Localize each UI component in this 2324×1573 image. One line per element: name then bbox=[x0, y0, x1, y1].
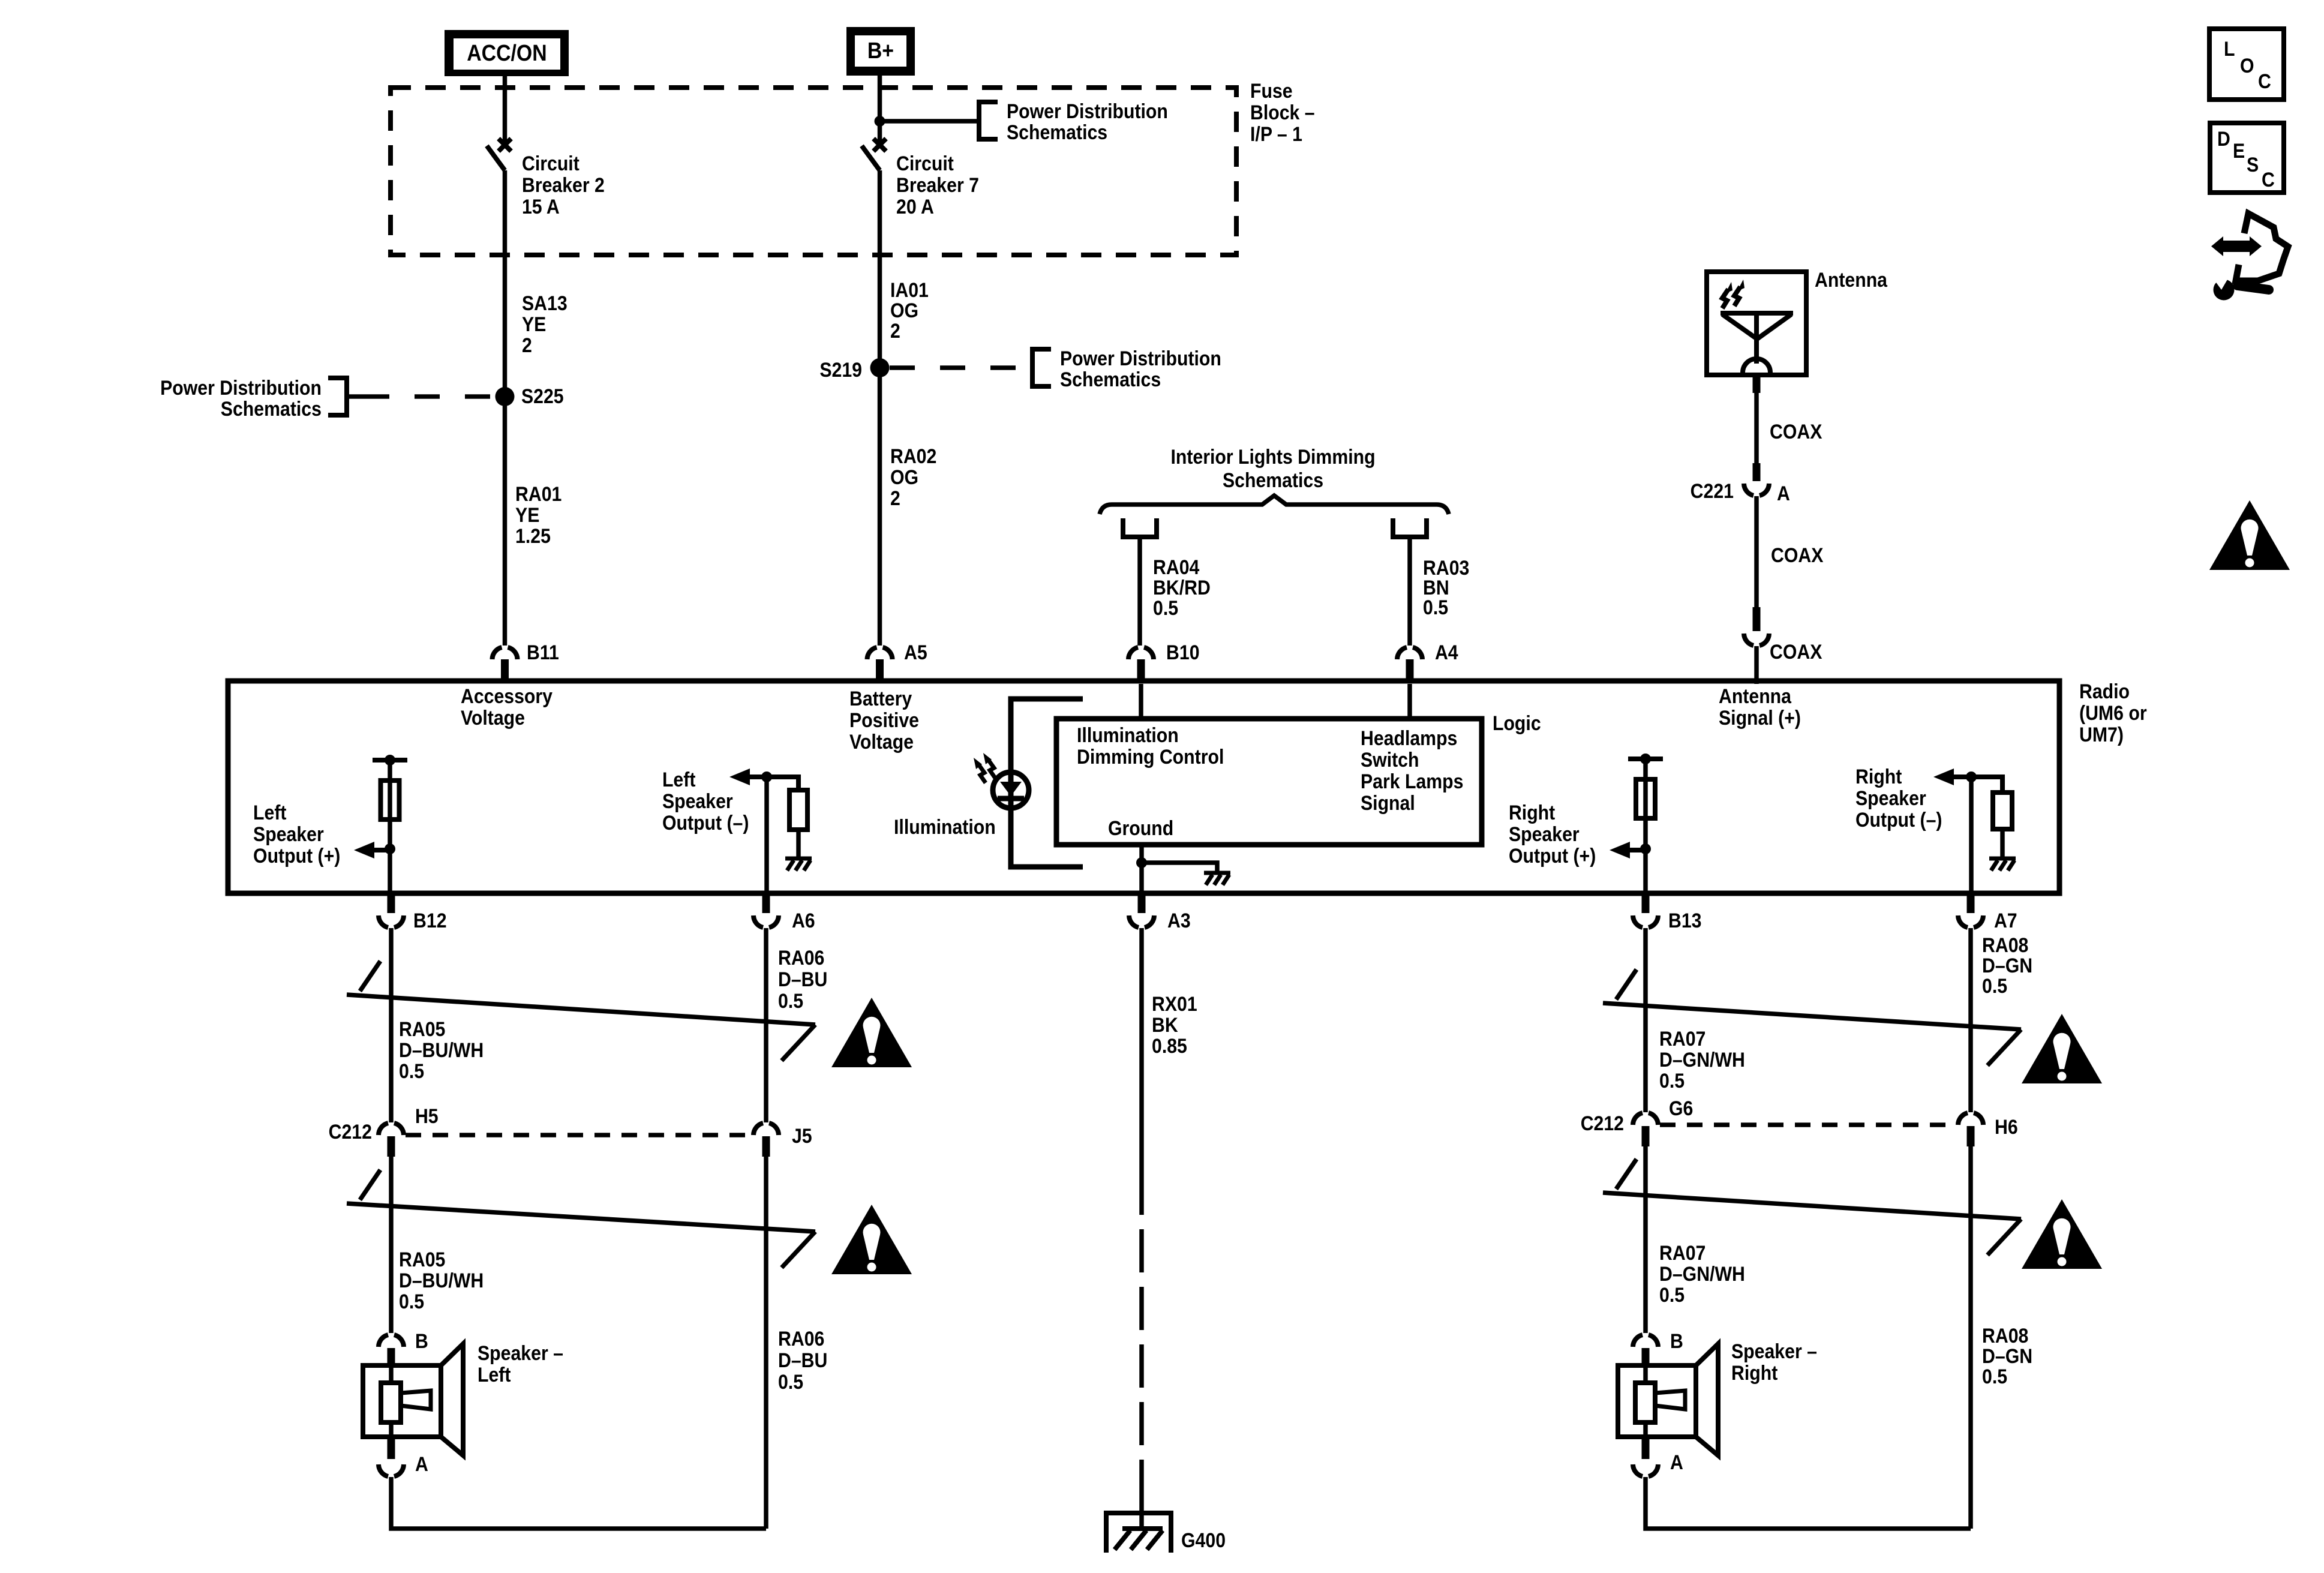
svg-text:D: D bbox=[2217, 127, 2230, 150]
radio pin A4 stub bbox=[1406, 659, 1414, 682]
speaker right driver bbox=[1635, 1383, 1655, 1422]
wire RX01 dashed segment bbox=[1139, 1172, 1144, 1500]
radio pin B11 socket bbox=[493, 647, 518, 659]
svg-text:Speaker: Speaker bbox=[1509, 822, 1580, 845]
svg-text:B+: B+ bbox=[867, 37, 894, 63]
svg-text:B10: B10 bbox=[1166, 641, 1200, 664]
svg-text:Park Lamps: Park Lamps bbox=[1361, 770, 1463, 792]
arrow Left Speaker Output (-) bbox=[729, 769, 750, 785]
node B12 arrow junction bbox=[385, 843, 395, 854]
resistor A6 bbox=[789, 790, 807, 830]
svg-text:1.25: 1.25 bbox=[515, 524, 551, 547]
terminal ACC/ON bbox=[445, 30, 569, 76]
svg-text:RA01: RA01 bbox=[515, 482, 562, 505]
circuit breaker 2 contact X bbox=[499, 139, 511, 151]
svg-text:Power Distribution: Power Distribution bbox=[1007, 100, 1168, 122]
svg-text:Schematics: Schematics bbox=[1007, 121, 1107, 143]
svg-text:15 A: 15 A bbox=[522, 195, 560, 218]
terminal B+ bbox=[846, 27, 915, 76]
wire inside speaker right bbox=[1643, 1367, 1648, 1384]
illumination bracket bbox=[1011, 699, 1083, 867]
dashed connector line C212 right bbox=[1660, 1122, 1956, 1127]
wire B12 to C212 bbox=[389, 928, 394, 1122]
svg-text:Schematics: Schematics bbox=[221, 397, 322, 420]
svg-text:A3: A3 bbox=[1167, 909, 1191, 932]
svg-text:Switch: Switch bbox=[1361, 748, 1419, 771]
svg-text:H6: H6 bbox=[1995, 1115, 2018, 1138]
svg-text:C: C bbox=[2262, 168, 2275, 191]
radio box bbox=[228, 681, 2059, 893]
radio pin A4 socket bbox=[1397, 647, 1422, 659]
icon LOC box bbox=[2209, 29, 2284, 100]
speaker left driver bbox=[381, 1383, 401, 1422]
connector C212 pin H6 bbox=[1967, 1126, 1975, 1146]
svg-text:20 A: 20 A bbox=[896, 195, 934, 218]
svg-text:A4: A4 bbox=[1435, 641, 1458, 664]
arrow Right Speaker Output (-) bbox=[1933, 769, 1954, 785]
svg-text:0.5: 0.5 bbox=[1659, 1283, 1685, 1306]
connector C212 socket J5 bbox=[753, 1123, 779, 1135]
svg-text:H5: H5 bbox=[415, 1104, 439, 1127]
svg-text:Block –: Block – bbox=[1250, 101, 1315, 124]
svg-text:L: L bbox=[2224, 37, 2235, 60]
wire A7 to C212 bbox=[1968, 928, 1973, 1112]
connector C212 pin H5 bbox=[388, 1136, 395, 1157]
svg-text:Schematics: Schematics bbox=[1223, 469, 1323, 491]
radio pin B12 stub bbox=[388, 892, 395, 913]
radio pin B10 stub bbox=[1137, 659, 1145, 682]
svg-text:B: B bbox=[1670, 1329, 1683, 1352]
svg-text:0.5: 0.5 bbox=[778, 1370, 803, 1393]
svg-text:Circuit: Circuit bbox=[896, 152, 954, 175]
svg-text:0.5: 0.5 bbox=[1659, 1069, 1685, 1092]
resistor top bar B12 bbox=[373, 758, 407, 763]
wire RA03 bbox=[1407, 537, 1412, 646]
svg-text:Antenna: Antenna bbox=[1719, 685, 1792, 707]
resistor B12 bbox=[381, 781, 400, 819]
radio pin A6 stub bbox=[762, 892, 770, 913]
ground branch wire bbox=[1142, 863, 1217, 871]
speaker left box bbox=[363, 1365, 441, 1437]
svg-text:RA04: RA04 bbox=[1153, 556, 1199, 578]
svg-text:Signal (+): Signal (+) bbox=[1719, 706, 1801, 729]
svg-text:Radio: Radio bbox=[2079, 680, 2130, 703]
svg-text:E: E bbox=[2233, 139, 2245, 162]
svg-text:OG: OG bbox=[890, 466, 918, 488]
logic box bbox=[1056, 719, 1482, 845]
svg-text:A6: A6 bbox=[792, 909, 815, 932]
icon adjust arrows and body panel bbox=[2222, 241, 2251, 252]
svg-text:Antenna: Antenna bbox=[1815, 268, 1888, 291]
svg-text:(UM6 or: (UM6 or bbox=[2079, 701, 2147, 724]
wire inside speaker left bbox=[389, 1367, 394, 1384]
svg-text:A7: A7 bbox=[1994, 909, 2017, 932]
svg-text:A: A bbox=[415, 1452, 428, 1475]
speaker left horn bbox=[401, 1391, 431, 1409]
svg-text:B: B bbox=[415, 1329, 428, 1352]
radio pin B12 socket bbox=[379, 915, 404, 927]
svg-text:Left: Left bbox=[253, 801, 287, 824]
receptacle RA04 (left) bbox=[1123, 518, 1157, 537]
svg-text:0.85: 0.85 bbox=[1152, 1034, 1187, 1057]
svg-text:B12: B12 bbox=[413, 909, 447, 932]
svg-text:Dimming Control: Dimming Control bbox=[1077, 745, 1224, 768]
radio pin A5 socket bbox=[867, 647, 893, 659]
radio pin B11 stub bbox=[501, 659, 509, 682]
wire B10 to logic box bbox=[1139, 684, 1143, 719]
connector C212 socket G6 bbox=[1633, 1113, 1658, 1125]
node B12 top bbox=[385, 755, 395, 766]
radio pin A5 stub bbox=[876, 659, 884, 682]
svg-text:RA02: RA02 bbox=[890, 445, 936, 467]
svg-text:C: C bbox=[2258, 70, 2271, 92]
svg-text:COAX: COAX bbox=[1770, 420, 1822, 443]
warning triangle large bbox=[2209, 500, 2290, 570]
svg-text:ACC/ON: ACC/ON bbox=[467, 40, 547, 65]
svg-text:D–GN: D–GN bbox=[1982, 1344, 2032, 1367]
svg-text:Speaker –: Speaker – bbox=[1731, 1340, 1817, 1362]
connector B speaker left stub bbox=[388, 1348, 395, 1367]
svg-text:Ground: Ground bbox=[1108, 816, 1173, 839]
svg-text:O: O bbox=[2240, 54, 2254, 77]
warning triangle left upper bbox=[831, 998, 912, 1067]
antenna signal arrows bbox=[1722, 289, 1728, 308]
svg-text:Speaker: Speaker bbox=[253, 822, 324, 845]
svg-text:Positive: Positive bbox=[849, 709, 919, 731]
coax connector socket (lower) bbox=[1744, 634, 1769, 646]
svg-text:J5: J5 bbox=[792, 1124, 812, 1147]
node A6 bbox=[761, 772, 772, 782]
wire speaker left return bbox=[391, 1477, 766, 1529]
coax wire upper bbox=[1754, 393, 1759, 464]
svg-text:D–BU/WH: D–BU/WH bbox=[399, 1038, 484, 1061]
svg-text:RA06: RA06 bbox=[778, 1327, 824, 1350]
wire ground A3 internal bbox=[1139, 845, 1144, 893]
splice S219 bbox=[870, 358, 890, 377]
warning triangle right upper bbox=[2022, 1014, 2102, 1083]
wire RX01 solid segment bbox=[1139, 928, 1144, 1172]
brace interior lights dimming bbox=[1100, 496, 1449, 514]
svg-text:Fuse: Fuse bbox=[1250, 79, 1293, 102]
speaker right horn bbox=[1655, 1391, 1685, 1409]
coax wire into radio bbox=[1754, 646, 1759, 684]
wire IA01 segment bbox=[878, 170, 882, 646]
wire A6 to resistor bbox=[767, 777, 798, 790]
wire SA13 segment bbox=[503, 170, 508, 646]
wire resistor to ground A6 bbox=[796, 830, 801, 857]
twisted pair marker lower right bbox=[1616, 1159, 1637, 1189]
connector C212 socket H5 bbox=[379, 1123, 404, 1135]
svg-text:SA13: SA13 bbox=[522, 292, 568, 314]
connector C221 pin bbox=[1753, 463, 1761, 481]
svg-text:S225: S225 bbox=[521, 385, 564, 407]
wire speaker right return bbox=[1646, 1477, 1971, 1529]
wire ACC/ON to breaker 2 bbox=[503, 76, 508, 143]
connector C212 pin G6 bbox=[1642, 1126, 1650, 1146]
wire B+ to breaker 7 bbox=[878, 76, 882, 143]
svg-text:I/P – 1: I/P – 1 bbox=[1250, 122, 1302, 145]
svg-text:Speaker: Speaker bbox=[662, 789, 733, 812]
speaker right cone bbox=[1696, 1344, 1718, 1455]
resistor B13 bbox=[1636, 779, 1655, 818]
svg-text:Output (+): Output (+) bbox=[253, 844, 340, 867]
icon wrench bbox=[2214, 280, 2235, 301]
fuse block dashed box bbox=[391, 88, 1236, 255]
svg-text:A: A bbox=[1670, 1451, 1683, 1473]
radio pin A3 socket bbox=[1129, 915, 1154, 927]
svg-text:Voltage: Voltage bbox=[461, 706, 525, 729]
circuit breaker 7 contact X bbox=[873, 139, 886, 151]
svg-text:BK/RD: BK/RD bbox=[1153, 576, 1211, 599]
svg-text:Power Distribution: Power Distribution bbox=[1060, 347, 1221, 370]
svg-text:Logic: Logic bbox=[1493, 712, 1541, 734]
svg-text:Schematics: Schematics bbox=[1060, 368, 1161, 391]
svg-text:Output (–): Output (–) bbox=[1855, 808, 1942, 831]
svg-text:OG: OG bbox=[890, 299, 918, 322]
svg-text:C212: C212 bbox=[329, 1120, 372, 1143]
svg-text:RA07: RA07 bbox=[1659, 1241, 1706, 1264]
svg-text:D–BU/WH: D–BU/WH bbox=[399, 1269, 484, 1292]
svg-text:Left: Left bbox=[662, 768, 696, 791]
node B13 top bbox=[1640, 754, 1651, 764]
svg-text:G6: G6 bbox=[1669, 1097, 1693, 1119]
twisted pair marker upper right bbox=[1616, 969, 1637, 999]
svg-text:Battery: Battery bbox=[849, 687, 912, 710]
svg-text:0.5: 0.5 bbox=[1153, 596, 1178, 619]
wire B13 to C212 bbox=[1643, 928, 1648, 1112]
node ground A3 bbox=[1136, 857, 1147, 868]
svg-text:D–GN/WH: D–GN/WH bbox=[1659, 1262, 1745, 1285]
wire A7 internal bbox=[1969, 777, 1974, 893]
svg-text:Speaker –: Speaker – bbox=[478, 1341, 563, 1364]
wire into G400 bbox=[1139, 1500, 1144, 1529]
svg-text:Power Distribution: Power Distribution bbox=[160, 376, 322, 399]
wire A6 to C212 bbox=[764, 928, 768, 1122]
coax connector pin (lower) bbox=[1753, 607, 1761, 631]
wire B13 internal bbox=[1643, 759, 1648, 893]
reference bracket power distribution (S225) bbox=[344, 376, 349, 418]
svg-text:0.5: 0.5 bbox=[1423, 596, 1448, 619]
wire J5 down bbox=[764, 1157, 768, 1529]
arrow Left Speaker Output (+) bbox=[374, 848, 390, 852]
twisted pair marker upper left bbox=[360, 961, 380, 991]
svg-text:2: 2 bbox=[890, 319, 900, 342]
ground symbol A7 bbox=[1989, 857, 2016, 861]
svg-text:A: A bbox=[1777, 482, 1790, 505]
svg-text:G400: G400 bbox=[1181, 1529, 1226, 1551]
ground symbol A3 bbox=[1204, 871, 1230, 875]
speaker right box bbox=[1618, 1365, 1696, 1437]
svg-text:BK: BK bbox=[1152, 1013, 1178, 1036]
svg-text:0.5: 0.5 bbox=[399, 1059, 424, 1082]
svg-text:Right: Right bbox=[1731, 1361, 1778, 1384]
connector B speaker left socket bbox=[379, 1335, 404, 1347]
svg-text:YE: YE bbox=[515, 503, 539, 526]
svg-text:COAX: COAX bbox=[1771, 544, 1824, 566]
svg-text:Output (–): Output (–) bbox=[662, 811, 749, 834]
reference bracket power distribution (S219) bbox=[1030, 347, 1035, 389]
dashed connector line C212 left bbox=[406, 1133, 752, 1137]
wire H6 down bbox=[1968, 1146, 1973, 1529]
svg-text:2: 2 bbox=[890, 487, 900, 509]
connector C212 pin J5 bbox=[762, 1136, 770, 1157]
connector B speaker right stub bbox=[1642, 1348, 1650, 1367]
svg-text:Speaker: Speaker bbox=[1855, 786, 1926, 809]
dashed lead from S219 bbox=[890, 365, 1032, 370]
dashed lead to S225 bbox=[348, 394, 364, 399]
svg-text:Output (+): Output (+) bbox=[1509, 844, 1596, 867]
illumination LED diode bbox=[1000, 782, 1022, 796]
wire resistor to ground A7 bbox=[2000, 829, 2005, 857]
radio pin A7 stub bbox=[1967, 892, 1975, 913]
svg-text:0.5: 0.5 bbox=[778, 989, 803, 1012]
node B13 arrow junction bbox=[1640, 843, 1651, 854]
circuit breaker 7 blade bbox=[862, 146, 880, 170]
coax stub below antenna bbox=[1753, 373, 1761, 393]
svg-text:YE: YE bbox=[522, 313, 546, 335]
svg-text:Illumination: Illumination bbox=[1077, 724, 1179, 746]
connector A speaker right stub bbox=[1642, 1438, 1650, 1459]
reference bracket power distribution (top) bbox=[977, 100, 981, 142]
radio pin B13 stub bbox=[1642, 892, 1650, 913]
ground symbol A6 bbox=[785, 857, 812, 861]
svg-text:D–BU: D–BU bbox=[778, 1349, 827, 1371]
svg-text:RA08: RA08 bbox=[1982, 933, 2028, 956]
arrow Right Speaker Output (+) bbox=[1630, 848, 1646, 852]
svg-text:RA07: RA07 bbox=[1659, 1027, 1706, 1050]
warning triangle left lower bbox=[831, 1205, 912, 1274]
connector A speaker left socket bbox=[379, 1464, 404, 1476]
wire A6 internal bbox=[764, 777, 769, 893]
circuit breaker 2 blade bbox=[487, 146, 505, 170]
svg-text:0.5: 0.5 bbox=[1982, 1365, 2007, 1388]
radio pin A3 stub bbox=[1138, 892, 1146, 913]
wire RA04 bbox=[1137, 537, 1142, 646]
node A7 bbox=[1966, 772, 1977, 782]
coax wire middle bbox=[1754, 496, 1759, 607]
resistor top bar B13 bbox=[1628, 757, 1663, 761]
connector A speaker left stub bbox=[388, 1438, 395, 1459]
svg-text:Headlamps: Headlamps bbox=[1361, 727, 1457, 749]
svg-text:C221: C221 bbox=[1691, 479, 1734, 502]
svg-text:Interior Lights Dimming: Interior Lights Dimming bbox=[1170, 445, 1375, 468]
svg-text:0.5: 0.5 bbox=[399, 1290, 424, 1313]
wire to power distribution reference bbox=[880, 119, 980, 124]
receptacle RA03 (right) bbox=[1393, 518, 1427, 537]
svg-text:RA05: RA05 bbox=[399, 1017, 445, 1040]
radio pin B13 socket bbox=[1633, 915, 1658, 927]
antenna box bbox=[1707, 272, 1806, 375]
speaker left cone bbox=[441, 1344, 463, 1455]
wire A4 to logic box bbox=[1407, 684, 1412, 719]
svg-text:D–GN/WH: D–GN/WH bbox=[1659, 1048, 1745, 1071]
svg-text:B11: B11 bbox=[527, 641, 559, 664]
svg-text:A5: A5 bbox=[904, 641, 927, 664]
illumination LED circle bbox=[993, 772, 1029, 808]
connector C221 socket bbox=[1744, 484, 1769, 496]
svg-text:Voltage: Voltage bbox=[849, 730, 914, 753]
svg-text:UM7): UM7) bbox=[2079, 723, 2124, 746]
twisted pair marker lower left bbox=[360, 1170, 380, 1200]
node at B+ feed bbox=[875, 116, 885, 127]
svg-text:IA01: IA01 bbox=[890, 278, 929, 301]
svg-text:2: 2 bbox=[522, 334, 532, 356]
warning triangle right lower bbox=[2022, 1199, 2102, 1269]
svg-text:C212: C212 bbox=[1581, 1112, 1624, 1134]
svg-text:COAX: COAX bbox=[1770, 640, 1822, 663]
svg-text:RA08: RA08 bbox=[1982, 1324, 2028, 1347]
wire B12 internal bbox=[388, 760, 392, 893]
icon DESC box bbox=[2210, 123, 2284, 193]
connector A speaker right socket bbox=[1633, 1464, 1658, 1476]
svg-text:Breaker 7: Breaker 7 bbox=[896, 173, 979, 196]
svg-text:Accessory: Accessory bbox=[461, 685, 553, 707]
svg-text:Right: Right bbox=[1855, 765, 1902, 788]
svg-text:Breaker 2: Breaker 2 bbox=[522, 173, 605, 196]
svg-text:B13: B13 bbox=[1668, 909, 1702, 932]
svg-text:S219: S219 bbox=[819, 358, 862, 381]
svg-text:Left: Left bbox=[478, 1363, 511, 1386]
svg-text:Circuit: Circuit bbox=[522, 152, 580, 175]
svg-text:Signal: Signal bbox=[1361, 791, 1415, 814]
svg-text:Right: Right bbox=[1509, 801, 1556, 824]
svg-text:RA05: RA05 bbox=[399, 1248, 445, 1271]
wire H5 to speaker left B bbox=[389, 1157, 394, 1333]
resistor A7 bbox=[1993, 792, 2012, 829]
svg-text:D–BU: D–BU bbox=[778, 968, 827, 990]
connector B speaker right socket bbox=[1633, 1335, 1658, 1347]
antenna symbol bbox=[1721, 311, 1793, 316]
radio pin A6 socket bbox=[753, 915, 779, 927]
radio pin A7 socket bbox=[1958, 915, 1983, 927]
wire G6 to speaker right B bbox=[1643, 1146, 1648, 1333]
svg-text:RA06: RA06 bbox=[778, 946, 824, 969]
connector C212 socket H6 bbox=[1958, 1113, 1983, 1125]
svg-text:Illumination: Illumination bbox=[894, 815, 996, 838]
wire A7 to resistor bbox=[1971, 777, 2002, 792]
splice S225 bbox=[496, 387, 515, 406]
svg-text:S: S bbox=[2247, 153, 2259, 176]
svg-text:D–GN: D–GN bbox=[1982, 954, 2032, 977]
ground G400 symbol bbox=[1106, 1513, 1171, 1553]
svg-text:0.5: 0.5 bbox=[1982, 974, 2007, 997]
illumination LED arrows bbox=[988, 760, 995, 778]
svg-text:RX01: RX01 bbox=[1152, 992, 1197, 1015]
radio pin B10 socket bbox=[1128, 647, 1154, 659]
